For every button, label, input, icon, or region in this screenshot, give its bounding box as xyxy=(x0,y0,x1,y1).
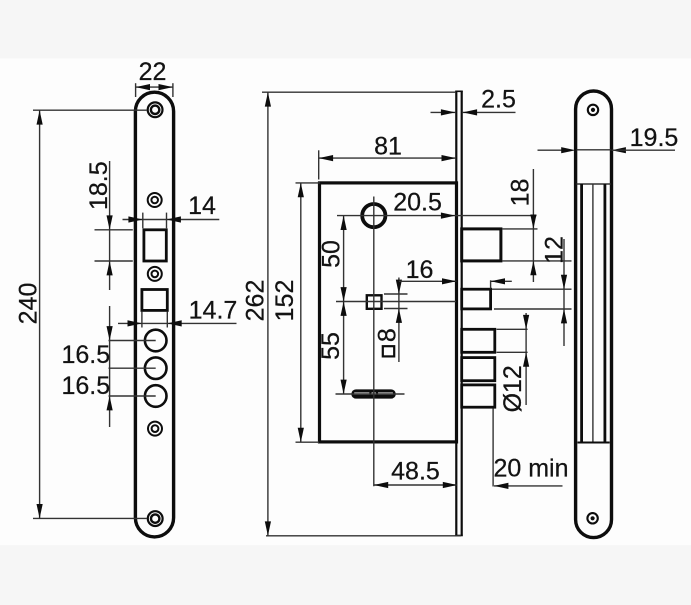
dimension 81 arrow left xyxy=(319,155,333,161)
hook bolt pin A xyxy=(462,329,495,352)
dimension chain line lower xyxy=(109,306,111,427)
svg-text:2.5: 2.5 xyxy=(481,85,516,113)
dimension 262 arrow top xyxy=(265,92,271,106)
faceplate edge bottom cap xyxy=(455,535,463,537)
dimension 16.5 chain arrow top xyxy=(107,326,113,340)
round hole 1 xyxy=(145,330,167,352)
svg-text:16.5: 16.5 xyxy=(61,341,110,369)
dimension 240 extension bottom xyxy=(33,517,147,519)
dimension 16.5 leader line 2 xyxy=(109,367,156,369)
svg-text:20.5: 20.5 xyxy=(393,188,442,216)
spindle horizontal centerline xyxy=(336,393,405,395)
dimension 14.7 arrow right xyxy=(167,320,181,326)
dimension 12 line xyxy=(563,239,565,346)
dimension 12 arrow bottom xyxy=(561,309,567,323)
pin A bottom extension xyxy=(497,351,528,353)
bottom gray band xyxy=(0,545,691,605)
svg-text:14.7: 14.7 xyxy=(189,296,238,324)
svg-text:Ø12: Ø12 xyxy=(499,365,527,412)
strike plate upper separation line xyxy=(577,149,611,151)
svg-text:18.5: 18.5 xyxy=(85,161,113,210)
dimension 81 arrow right xyxy=(442,155,456,161)
latch top extension xyxy=(502,228,538,230)
dimension 2.5 tail right xyxy=(463,111,516,113)
dimension 16 right tail xyxy=(491,280,512,282)
dimension 22 extension left xyxy=(135,83,137,97)
follower square hole xyxy=(367,295,382,309)
svg-text:152: 152 xyxy=(271,280,299,322)
svg-text:50: 50 xyxy=(317,240,345,268)
dimension 14 extension right xyxy=(166,213,168,229)
dimension 19.5 arrow left xyxy=(561,147,575,153)
svg-text:55: 55 xyxy=(317,332,345,360)
dimension 16.5 leader line 3 xyxy=(109,395,156,397)
dimension 18 arrow bottom xyxy=(530,261,536,275)
dimension 19.5 tail right underline xyxy=(612,149,676,151)
dimension 152 extension bottom xyxy=(296,441,320,443)
dimension 20.5 arrow xyxy=(441,213,455,219)
svg-text:16.5: 16.5 xyxy=(61,372,110,400)
svg-text:8: 8 xyxy=(374,328,402,342)
strike channel bottom line xyxy=(578,442,610,444)
dimension 55 arrow top xyxy=(341,302,347,316)
dimension 240 line xyxy=(39,110,41,518)
dimension 18.5 arrow top xyxy=(107,215,113,229)
square cutout 2 (deadbolt aperture) xyxy=(142,290,167,311)
cylinder hole xyxy=(362,204,385,227)
spindle spring bar xyxy=(354,389,393,399)
dimension 81 extension left xyxy=(318,150,320,179)
strike plate second separation line xyxy=(577,183,611,185)
dimension 18 arrow top xyxy=(530,215,536,229)
round hole 3 xyxy=(145,385,167,407)
dimension 16.5 leader line 1 xyxy=(109,340,156,342)
dimension 14 arrow right xyxy=(167,216,181,222)
dimension 262 extension bottom xyxy=(266,535,461,537)
dimension 19.5 tail left xyxy=(538,149,563,151)
dimension 18 line xyxy=(532,169,534,282)
lock body outline xyxy=(320,183,457,442)
deadbolt stem top extension xyxy=(492,288,572,290)
svg-text:240: 240 xyxy=(14,283,42,325)
dimension 16 extension xyxy=(490,280,492,288)
strike channel middle line xyxy=(592,184,594,443)
svg-text:16: 16 xyxy=(406,256,434,284)
dimension 20min arrow xyxy=(494,483,508,489)
dimension 18.5 arrow bottom xyxy=(107,261,113,275)
svg-text:22: 22 xyxy=(139,58,167,86)
dimension 152 line xyxy=(300,183,302,442)
strike screw hole bottom xyxy=(587,513,597,523)
dimension 2.5 arrow right xyxy=(463,109,477,115)
dimension 48.5 arrow left xyxy=(374,482,388,488)
dimension 18.5 extension bottom xyxy=(95,260,133,262)
dimension 14.7 arrow left xyxy=(128,320,142,326)
dimension 48.5 line xyxy=(374,484,457,486)
strike channel right wall xyxy=(604,184,607,443)
dimension 20min extension xyxy=(492,409,494,487)
top gray band xyxy=(0,0,691,59)
dimension 8 extension bottom xyxy=(384,308,408,310)
dimension 50 arrow bottom xyxy=(341,287,347,301)
dimension 12 arrow top xyxy=(561,275,567,289)
dimension 18.5 extension top xyxy=(95,229,133,231)
dimension diameter-12 arrow bottom xyxy=(523,352,529,366)
dimension 14.7 line xyxy=(118,322,237,324)
svg-text:19.5: 19.5 xyxy=(630,124,679,152)
dimension 2.5 arrow left xyxy=(441,109,455,115)
dimension 20min line xyxy=(494,485,563,487)
svg-text:12: 12 xyxy=(540,236,568,264)
dimension 55 arrow bottom xyxy=(341,380,347,394)
dimension 262 arrow bottom xyxy=(265,521,271,535)
dimension 240 arrow top xyxy=(37,110,43,124)
dimension 50 and 55 shared line xyxy=(343,216,345,394)
dimension 81 line xyxy=(319,157,456,159)
strike plate outline (side view, stadium shape) xyxy=(576,91,612,538)
dimension 14.7 extension left xyxy=(141,312,143,328)
dimension 22 extension right xyxy=(172,83,174,97)
hook bolt pin C xyxy=(462,385,495,407)
svg-text:20 min: 20 min xyxy=(493,455,568,483)
follower horizontal centerline xyxy=(336,301,456,303)
square deadbolt stem xyxy=(462,289,491,309)
dimension 50 arrow top xyxy=(341,216,347,230)
spindle center circle xyxy=(370,391,377,398)
pin A top extension xyxy=(497,328,528,330)
vertical centerline through cylinder and follower xyxy=(373,197,375,487)
faceplate outline (front view, stadium shape) xyxy=(135,92,173,537)
latch bolt xyxy=(462,229,501,261)
dimension 8 extension top xyxy=(384,293,408,295)
screw hole 3 xyxy=(148,267,162,281)
dimension 8 line xyxy=(398,278,400,363)
dimension 22 arrow left xyxy=(136,84,150,90)
square cutout 1 (latch aperture) xyxy=(144,230,166,261)
faceplate edge view left line xyxy=(455,91,457,535)
svg-text:81: 81 xyxy=(374,133,402,161)
hook bolt pin B xyxy=(462,358,495,381)
dimension 18.5 line upper xyxy=(109,161,111,290)
dimension 19.5 arrow right xyxy=(612,147,626,153)
dimension 14 extension left xyxy=(142,213,144,229)
dimension 152 arrow bottom xyxy=(298,428,304,442)
dimension 14 line xyxy=(123,219,220,221)
faceplate edge view right line xyxy=(461,91,463,535)
cylinder horizontal centerline and 20.5 leader xyxy=(337,215,537,217)
svg-text:262: 262 xyxy=(241,280,269,322)
dimension 22 line xyxy=(136,86,173,88)
dimension 8 arrow top xyxy=(396,280,402,294)
dimension 152 extension top xyxy=(296,182,321,184)
svg-text:48.5: 48.5 xyxy=(391,458,440,486)
screw hole 2 xyxy=(148,193,162,207)
latch bottom extension xyxy=(502,260,572,262)
screw hole bottom xyxy=(148,511,163,526)
dimension 240 arrow bottom xyxy=(37,504,43,518)
dimension 16.5 chain arrow bottom xyxy=(107,396,113,410)
deadbolt stem bottom extension xyxy=(494,308,572,310)
dimension 16 arrow left xyxy=(442,278,456,284)
screw hole top xyxy=(148,102,163,117)
dimension 22 arrow right xyxy=(159,84,173,90)
dimension 14 arrow left xyxy=(128,216,142,222)
dimension 16 arrow right xyxy=(491,278,505,284)
dimension 262 line xyxy=(267,92,269,536)
dimension 152 arrow top xyxy=(298,183,304,197)
svg-text:14: 14 xyxy=(188,192,216,220)
svg-text:18: 18 xyxy=(506,179,534,207)
round hole 2 xyxy=(145,357,167,379)
dimension 262 extension top xyxy=(262,91,455,93)
dimension 14.7 extension right xyxy=(166,312,168,328)
strike channel left wall xyxy=(580,184,583,443)
dimension diameter-12 arrow top xyxy=(523,315,529,329)
dimension 16 leader xyxy=(399,280,456,282)
dimension 2.5 tail left xyxy=(431,111,456,113)
strike screw hole top xyxy=(588,105,598,115)
dimension 8 arrow bottom xyxy=(396,309,402,323)
dimension 48.5 arrow right xyxy=(443,482,457,488)
dimension diameter-12 line xyxy=(525,313,527,405)
dimension 240 extension top xyxy=(33,109,147,111)
dimension square symbol xyxy=(383,346,394,356)
screw hole 4 xyxy=(148,422,162,436)
faceplate edge top cap xyxy=(455,90,463,92)
